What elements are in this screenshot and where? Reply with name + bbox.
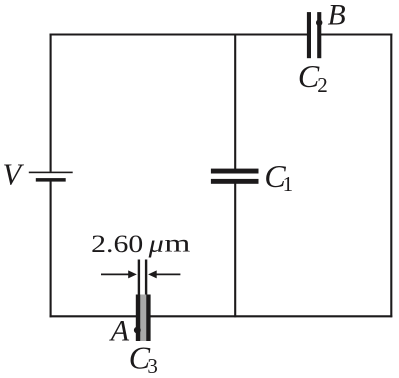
svg-text:2.60: 2.60 [91, 231, 143, 258]
wire: top, left segment to C2 [50, 33, 309, 35]
dimension arrow, right (pointing left) [156, 273, 181, 275]
capacitor C1: top plate [211, 169, 259, 174]
wire: bottom, left segment to C3 [50, 315, 138, 317]
svg-text:μ: μ [147, 231, 163, 258]
wire: bottom, right segment from C3 [150, 315, 392, 317]
wire: middle, below C1 [234, 182, 236, 317]
wire: right side [390, 34, 392, 318]
svg-text:m: m [164, 231, 191, 258]
capacitor C2: right plate [317, 12, 321, 58]
wire: left, above battery [50, 34, 52, 172]
capacitor C3: right thin plate line (gap detail) [145, 260, 147, 295]
capacitor C3: left thin plate line (gap detail) [138, 260, 140, 295]
capacitor C3: right thick plate [146, 295, 150, 342]
wire: top, right segment from C2 [320, 33, 392, 35]
capacitor C2: left plate [307, 12, 311, 58]
wire: middle, above C1 [234, 34, 236, 171]
battery V: short thick plate [36, 178, 66, 182]
dimension arrow, left (pointing right) [101, 273, 130, 275]
node A dot [134, 327, 141, 334]
capacitor C3: gray dielectric bar [140, 295, 146, 342]
svg-text:1: 1 [283, 172, 294, 196]
battery V: long thin plate [29, 172, 73, 174]
capacitor C1: bottom plate [211, 179, 259, 184]
svg-text:V: V [3, 158, 25, 192]
svg-text:3: 3 [147, 354, 158, 378]
svg-text:A: A [109, 315, 130, 348]
node B dot [316, 20, 322, 26]
wire: left, below battery [50, 181, 52, 317]
svg-text:2: 2 [317, 73, 328, 97]
capacitor C3: left thick plate [136, 295, 141, 342]
svg-text:B: B [328, 0, 346, 32]
